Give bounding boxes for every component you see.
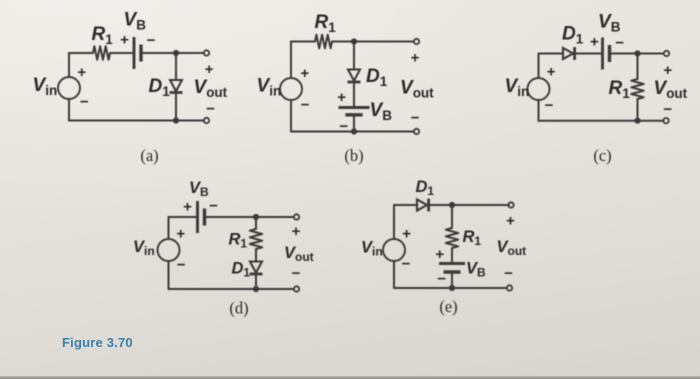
wire (e) battery to bottom rail [451, 272, 453, 288]
polarity + of Vout (c) [663, 62, 672, 79]
wire (d) R1 to diode [255, 249, 257, 262]
wire (b) battery to bottom rail [353, 115, 355, 132]
terminal (c) output top [664, 51, 669, 56]
svg-text:−: − [209, 198, 218, 215]
page bottom edge [0, 376, 700, 379]
terminal (d) output bottom [294, 286, 299, 291]
node (d) top junction [253, 214, 259, 220]
svg-text:+: + [506, 213, 515, 230]
polarity + of VB (d) [183, 199, 192, 216]
svg-text:D1: D1 [366, 66, 388, 89]
svg-text:VB: VB [189, 179, 209, 199]
voltage source Vin (b) [280, 78, 302, 100]
svg-text:−: − [402, 256, 411, 273]
svg-text:+: + [205, 61, 214, 78]
circuit (a) [33, 10, 228, 166]
polarity - of VB (d) [209, 198, 218, 215]
diode D1 (b) [348, 70, 361, 83]
resistor R1 (e) [446, 228, 458, 248]
wire (b) R1 to terminal [332, 41, 414, 43]
polarity + of Vin (d) [176, 226, 185, 243]
label VB (e) [466, 260, 486, 280]
svg-text:+: + [411, 50, 420, 67]
wire (b) bottom rail [291, 100, 414, 132]
svg-text:Vout: Vout [654, 78, 688, 101]
label Vout (c) [654, 78, 688, 101]
polarity + of VB (a) [120, 32, 129, 49]
node (e) bottom junction [449, 285, 455, 291]
svg-text:R1: R1 [229, 231, 248, 251]
diode D1 (d) [250, 262, 263, 275]
svg-text:D1: D1 [149, 76, 171, 99]
wire (d) battery to terminal [205, 216, 295, 218]
wire (e) diode to terminal [430, 204, 509, 206]
terminal (e) output bottom [507, 285, 512, 290]
svg-text:−: − [411, 110, 420, 127]
wire (c) left rail top [539, 54, 564, 79]
label D1 (d) [232, 260, 251, 280]
wire (a) bottom rail [69, 99, 204, 121]
svg-text:+: + [547, 64, 556, 81]
svg-text:+: + [120, 32, 129, 49]
svg-text:Vin: Vin [361, 239, 383, 259]
battery VB (b) [339, 108, 370, 115]
label VB (a) [124, 10, 147, 33]
label Vin (a) [33, 75, 58, 98]
label D1 (a) [149, 76, 171, 99]
svg-text:VB: VB [466, 260, 486, 280]
terminal (b) output bottom [414, 129, 419, 134]
caption (e) [439, 297, 457, 316]
svg-text:+: + [590, 34, 599, 51]
svg-text:R1: R1 [609, 78, 631, 101]
label Vout (b) [400, 78, 434, 101]
svg-text:−: − [206, 100, 215, 117]
svg-text:+: + [337, 89, 346, 106]
node (b) bottom junction [351, 128, 357, 134]
svg-text:Vin: Vin [133, 238, 155, 258]
polarity + of Vin (e) [402, 226, 411, 243]
terminal (a) output bottom [204, 118, 209, 123]
polarity - of Vout (e) [504, 265, 513, 282]
wire (d) branch above R1 [255, 217, 257, 229]
wire (c) diode to battery [576, 53, 603, 55]
label VB (d) [189, 179, 209, 199]
voltage source Vin (e) [383, 239, 405, 261]
svg-text:(a): (a) [140, 146, 158, 165]
svg-text:Vin: Vin [257, 76, 282, 99]
label Vin (c) [505, 76, 530, 99]
battery VB (e) [439, 264, 465, 273]
caption (d) [229, 299, 248, 318]
circuit (d) [133, 179, 314, 318]
svg-text:VB: VB [124, 10, 147, 33]
svg-text:+: + [435, 246, 444, 263]
node (a) top junction [173, 50, 179, 56]
wire (d) left rail top [169, 217, 198, 239]
wire (d) bottom rail [169, 261, 295, 289]
polarity + of Vout (b) [411, 50, 420, 67]
svg-text:Vout: Vout [284, 244, 314, 264]
polarity + of Vin (a) [77, 64, 86, 81]
wire (c) battery to terminal [610, 53, 664, 55]
wire (a) diode branch upper [175, 53, 177, 80]
battery VB (d) [198, 201, 205, 233]
wire (a) diode branch lower [175, 95, 177, 121]
svg-text:R1: R1 [92, 24, 114, 47]
svg-text:−: − [663, 101, 672, 118]
svg-text:+: + [176, 226, 185, 243]
wire (a) R1 to battery [110, 52, 134, 54]
battery VB (c) [603, 38, 610, 70]
label R1 (b) [315, 12, 337, 35]
wire (c) bottom rail [539, 100, 664, 121]
svg-text:−: − [615, 35, 624, 52]
label Vin (b) [257, 76, 282, 99]
circuit (e) [361, 178, 526, 316]
polarity - of VB (b) [339, 118, 348, 135]
terminal (d) output top [294, 214, 299, 219]
svg-text:−: − [80, 94, 89, 111]
polarity - of Vout (c) [663, 101, 672, 118]
svg-text:Vin: Vin [33, 75, 58, 98]
svg-text:Vout: Vout [194, 77, 228, 100]
label Vout (d) [284, 244, 314, 264]
wire (b) left rail top [291, 42, 315, 79]
polarity - of Vin (b) [301, 97, 310, 114]
polarity - of Vin (e) [402, 256, 411, 273]
svg-text:VB: VB [598, 12, 621, 35]
svg-text:(c): (c) [593, 146, 611, 165]
resistor R1 (a) [93, 46, 110, 60]
resistor R1 (c) [631, 79, 643, 99]
svg-text:+: + [300, 65, 309, 82]
svg-text:R1: R1 [315, 12, 337, 35]
label R1 (a) [92, 24, 114, 47]
wire (e) left rail top [394, 205, 417, 239]
svg-text:(d): (d) [229, 299, 248, 318]
svg-text:Vout: Vout [400, 78, 434, 101]
polarity - of VB (c) [615, 35, 624, 52]
label VB (c) [598, 12, 621, 35]
battery VB (a) [134, 37, 141, 69]
polarity + of VB (e) [435, 246, 444, 263]
resistor R1 (d) [250, 229, 262, 249]
svg-text:D1: D1 [416, 178, 435, 198]
wire (b) branch above diode [353, 42, 355, 70]
polarity - of Vout (b) [411, 110, 420, 127]
svg-text:(b): (b) [344, 146, 363, 165]
caption (a) [140, 146, 158, 165]
polarity - of Vin (c) [545, 97, 554, 114]
polarity + of Vout (a) [205, 61, 214, 78]
node (b) top junction [351, 38, 357, 44]
terminal (a) output top [204, 50, 209, 55]
svg-text:(e): (e) [439, 297, 457, 316]
node (d) bottom junction [253, 286, 259, 292]
caption (c) [593, 146, 611, 165]
node (a) bottom junction [173, 117, 179, 123]
svg-text:+: + [402, 226, 411, 243]
svg-text:VB: VB [370, 100, 393, 123]
polarity - of VB (a) [147, 32, 156, 49]
svg-text:−: − [545, 97, 554, 114]
polarity - of Vout (a) [206, 100, 215, 117]
node (e) top junction [449, 202, 455, 208]
svg-text:−: − [437, 271, 446, 288]
svg-text:+: + [183, 199, 192, 216]
polarity + of Vin (c) [547, 64, 556, 81]
label D1 (e) [416, 178, 435, 198]
polarity + of VB (b) [337, 89, 346, 106]
svg-text:Vout: Vout [497, 238, 527, 258]
svg-text:Vin: Vin [505, 76, 530, 99]
terminal (b) output top [414, 39, 419, 44]
label R1 (e) [463, 228, 482, 248]
polarity + of Vout (e) [506, 213, 515, 230]
wire (a) left rail top [69, 53, 93, 77]
svg-text:−: − [292, 265, 301, 282]
label Vin (e) [361, 239, 383, 259]
label R1 (c) [609, 78, 631, 101]
svg-text:+: + [663, 62, 672, 79]
node (c) bottom junction [634, 118, 640, 124]
svg-text:−: − [301, 97, 310, 114]
wire (e) branch above R1 [451, 205, 453, 228]
wire (e) bottom rail [394, 261, 507, 288]
voltage source Vin (a) [58, 77, 80, 99]
label D1 (b) [366, 66, 388, 89]
diode D1 (e) [417, 199, 429, 212]
terminal (e) output top [508, 202, 513, 207]
caption (b) [344, 146, 363, 165]
polarity - of VB (e) [437, 271, 446, 288]
wire (a) battery to output [141, 52, 204, 54]
label R1 (d) [229, 231, 248, 251]
label VB (b) [370, 100, 393, 123]
svg-text:+: + [77, 64, 86, 81]
polarity + of VB (c) [590, 34, 599, 51]
voltage source Vin (d) [158, 239, 180, 261]
svg-text:−: − [147, 32, 156, 49]
svg-text:R1: R1 [463, 228, 482, 248]
circuit (b) [257, 12, 435, 165]
resistor R1 (b) [315, 35, 332, 49]
polarity - of Vout (d) [292, 265, 301, 282]
wire (c) branch below R1 [637, 99, 639, 121]
wire (d) diode to bottom rail [255, 276, 257, 289]
polarity + of Vout (d) [292, 223, 301, 240]
node (c) top junction [634, 50, 640, 56]
terminal (c) output bottom [663, 118, 668, 123]
label D1 (c) [562, 24, 584, 47]
polarity - of Vin (d) [177, 257, 186, 274]
svg-text:−: − [177, 257, 186, 274]
label Vout (a) [194, 77, 228, 100]
diode D1 (c) [563, 47, 575, 60]
diode D1 (a) [170, 80, 183, 93]
voltage source Vin (c) [528, 78, 550, 100]
wire (c) branch above R1 [637, 54, 639, 80]
polarity + of Vin (b) [300, 65, 309, 82]
svg-text:+: + [292, 223, 301, 240]
figure caption [62, 335, 133, 350]
wire (b) diode to battery [353, 84, 355, 108]
wire (e) R1 to battery [451, 248, 453, 264]
label Vin (d) [133, 238, 155, 258]
svg-text:D1: D1 [232, 260, 251, 280]
circuit (c) [505, 12, 688, 166]
label Vout (e) [497, 238, 527, 258]
polarity - of Vin (a) [80, 94, 89, 111]
svg-text:D1: D1 [562, 24, 584, 47]
svg-text:−: − [504, 265, 513, 282]
